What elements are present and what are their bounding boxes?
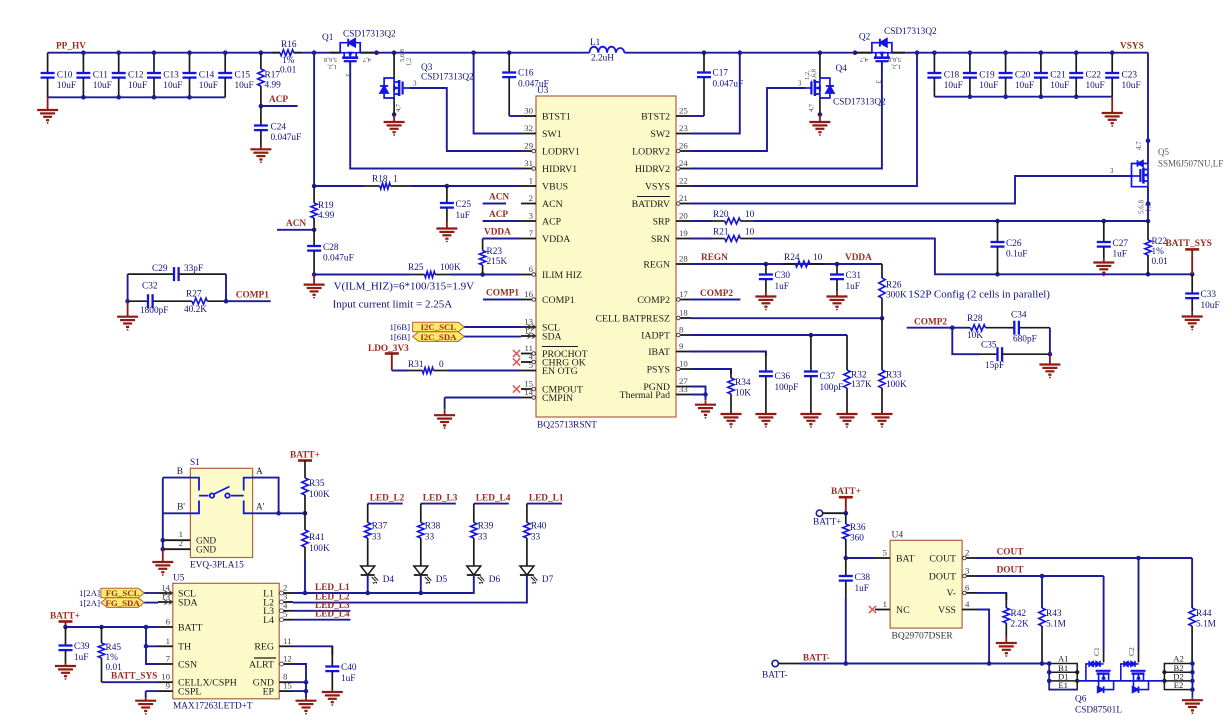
svg-text:COMP1: COMP1	[236, 291, 269, 301]
resistor R34	[728, 369, 751, 414]
svg-text:15pF: 15pF	[985, 361, 1004, 371]
pin 13 SCL U3	[521, 317, 560, 334]
svg-text:300K: 300K	[886, 291, 907, 301]
wire LED_L2 net	[293, 585, 527, 603]
power flag BATT+ right	[831, 487, 861, 513]
svg-text:1[2A]: 1[2A]	[79, 588, 100, 598]
svg-text:10uF: 10uF	[979, 81, 998, 91]
svg-text:E1: E1	[1058, 680, 1068, 690]
svg-text:R20: R20	[713, 210, 729, 220]
svg-text:10K: 10K	[967, 331, 983, 341]
junction dot Ap-1	[276, 511, 281, 516]
svg-text:B': B'	[177, 503, 185, 513]
svg-text:3: 3	[1110, 167, 1114, 175]
svg-text:1[6B]: 1[6B]	[389, 322, 410, 332]
ground S1	[162, 549, 164, 562]
junction dot TH	[144, 644, 149, 649]
svg-text:1,2,: 1,2,	[891, 63, 901, 70]
svg-text:15: 15	[283, 681, 292, 691]
wire BTST2	[691, 115, 704, 117]
svg-text:SSM6J507NU,LF: SSM6J507NU,LF	[1158, 159, 1223, 169]
wire COMP1 out	[226, 300, 271, 302]
junction dot ACP	[259, 104, 264, 109]
svg-text:U4: U4	[892, 531, 904, 541]
capacitor C14	[183, 53, 218, 98]
resistor R35	[302, 461, 330, 514]
svg-text:E2: E2	[1174, 680, 1184, 690]
svg-text:1800pF: 1800pF	[140, 306, 168, 316]
svg-text:R24: R24	[784, 253, 800, 263]
pin 3 DOUT U4	[929, 566, 977, 583]
resistor R42	[1003, 593, 1029, 636]
wire S1 pin A	[253, 467, 279, 513]
svg-text:0: 0	[439, 360, 444, 370]
ground CMPIN	[444, 409, 446, 415]
wire Q1 gate to HIDRV1	[350, 62, 521, 169]
svg-text:C19: C19	[979, 71, 995, 81]
power flag LDO_3V3	[368, 344, 409, 371]
svg-text:BATT: BATT	[178, 622, 203, 633]
pin 3 ACP U3	[521, 211, 562, 228]
svg-text:10: 10	[813, 253, 823, 263]
junction dot C16 top	[507, 50, 512, 55]
LED D7	[520, 566, 554, 585]
ground U5 GND	[305, 697, 307, 701]
wire BATT net	[66, 626, 159, 628]
resistor R33	[879, 318, 907, 414]
resistor R37	[365, 522, 388, 567]
capacitor C17	[697, 53, 743, 116]
wire C1 gate lead	[1103, 576, 1105, 650]
pin 1 GND S1	[163, 529, 217, 547]
wire LED_L1 net	[293, 585, 474, 594]
svg-text:5: 5	[529, 360, 534, 370]
pin 2 GND S1	[163, 538, 217, 556]
svg-text:5,6,8: 5,6,8	[888, 56, 901, 63]
pin 10 PSYS U3	[647, 359, 691, 376]
ground Q3 source	[393, 115, 395, 123]
pin 16 COMP1 U3	[521, 289, 575, 306]
svg-text:1uF: 1uF	[855, 584, 869, 594]
wire SCL	[464, 326, 521, 328]
svg-text:C11: C11	[93, 71, 109, 81]
junction dot Q2 source	[853, 50, 858, 55]
capacitor C28	[307, 230, 354, 275]
svg-text:R38: R38	[425, 522, 441, 532]
wire DOUT	[977, 575, 1104, 577]
junction dot COMP2 gnd	[1048, 352, 1053, 357]
wire COMP1 right vertical	[225, 274, 227, 301]
junction dot VBUS branch	[312, 50, 317, 55]
svg-text:R19: R19	[318, 201, 334, 211]
junction dot COMP1 net	[224, 299, 229, 304]
resistor R44	[1189, 558, 1216, 664]
junction dot GND-EP	[304, 680, 309, 685]
svg-text:R31: R31	[408, 360, 424, 370]
svg-text:VSYS: VSYS	[1120, 42, 1144, 52]
wire VSYS pin to rail	[691, 53, 917, 186]
svg-text:100pF: 100pF	[775, 383, 799, 393]
svg-text:R32: R32	[851, 371, 867, 381]
junction dot IADPT-C37	[809, 333, 814, 338]
svg-text:R28: R28	[967, 314, 983, 324]
wire IADPT	[691, 334, 847, 336]
svg-text:R33: R33	[886, 371, 902, 381]
wire D4 cathode	[367, 575, 369, 593]
svg-text:0.1uF: 0.1uF	[1006, 250, 1027, 260]
ground R34	[721, 413, 742, 415]
junction dot COMP2 net	[950, 325, 955, 330]
svg-text:1uF: 1uF	[846, 282, 860, 292]
capacitor C32	[128, 282, 172, 317]
flag FG_SCL	[79, 588, 144, 598]
svg-text:FG_SDA: FG_SDA	[105, 598, 140, 608]
junction dot LED_L1 D5	[419, 591, 424, 596]
resistor R31	[392, 360, 521, 374]
svg-text:C2: C2	[1127, 647, 1136, 656]
wire CSPL to ground	[146, 690, 158, 692]
svg-text:PP_HV: PP_HV	[56, 42, 86, 52]
pin 5 EN OTG U3	[521, 360, 578, 377]
junction dot VSYS branch	[915, 50, 920, 55]
capacitor C31	[830, 264, 861, 292]
svg-text:C1: C1	[1092, 647, 1101, 656]
svg-text:C28: C28	[323, 243, 339, 253]
svg-text:0.047uF: 0.047uF	[713, 80, 744, 90]
svg-text:10uF: 10uF	[199, 81, 218, 91]
transistor Q4	[798, 53, 886, 117]
svg-text:LED_L1: LED_L1	[529, 494, 564, 504]
junction dot C39	[63, 625, 68, 630]
wire switch-node rail L1 to Q2	[624, 52, 872, 54]
svg-text:C31: C31	[846, 271, 862, 281]
svg-text:R21: R21	[713, 228, 729, 238]
pin 23 SW2 U3	[650, 123, 691, 140]
svg-text:2: 2	[965, 548, 969, 558]
svg-text:DOUT: DOUT	[929, 571, 956, 582]
terminal BATT- circle	[762, 660, 787, 680]
svg-text:COMP1: COMP1	[542, 295, 575, 306]
svg-text:9: 9	[166, 681, 171, 691]
capacitor C24	[254, 106, 301, 146]
resistor R21 and SRN wire	[691, 228, 1192, 275]
svg-text:10uF: 10uF	[1201, 301, 1220, 311]
svg-text:2: 2	[529, 193, 533, 203]
svg-text:A: A	[256, 467, 263, 477]
resistor R26	[879, 264, 907, 318]
switch S1 body	[190, 458, 253, 571]
pin 21 BATDRV U3	[632, 193, 691, 210]
svg-text:D4: D4	[383, 575, 395, 585]
resistor R19	[311, 186, 335, 230]
pin 22 VSYS U3	[645, 176, 691, 193]
svg-text:CSD87501L: CSD87501L	[1075, 706, 1122, 716]
wire SW2	[691, 53, 740, 134]
ground C25	[446, 221, 448, 229]
ground C31	[836, 291, 838, 297]
svg-text:LED_L4: LED_L4	[476, 494, 511, 504]
wire COMP2 in	[907, 327, 966, 329]
svg-text:6: 6	[965, 582, 970, 592]
capacitor C38	[839, 558, 871, 664]
junction dot SW2 branch	[738, 50, 743, 55]
svg-text:R23: R23	[487, 247, 503, 257]
wire V- to R42	[977, 593, 1006, 600]
svg-text:100K: 100K	[309, 544, 330, 554]
junction dot TH branch	[144, 625, 149, 630]
svg-text:PSYS: PSYS	[647, 364, 670, 375]
svg-text:21: 21	[679, 193, 688, 203]
wire COMP1 left vertical	[127, 274, 129, 301]
svg-text:C37: C37	[820, 372, 836, 382]
svg-text:R45: R45	[106, 643, 122, 653]
svg-text:U5: U5	[173, 574, 185, 584]
svg-text:BAT: BAT	[896, 553, 915, 564]
svg-text:EN OTG: EN OTG	[542, 366, 578, 377]
svg-text:C29: C29	[152, 264, 168, 274]
junction dot COUT C2	[1136, 556, 1141, 561]
svg-text:Q3: Q3	[421, 63, 433, 73]
capacitor C11	[76, 53, 111, 98]
svg-text:ACN: ACN	[489, 193, 509, 203]
junction dots Q6 right stack	[1190, 661, 1195, 666]
svg-text:R40: R40	[531, 522, 547, 532]
svg-text:Q1: Q1	[322, 33, 334, 43]
wire VDDA stub	[483, 238, 521, 240]
junction dot VBUS-R19	[312, 184, 317, 189]
svg-text:R34: R34	[735, 378, 751, 388]
flag FG_SDA	[79, 598, 144, 608]
resistor R28	[966, 314, 1008, 341]
wire REG to C40	[293, 646, 332, 655]
inductor L1	[590, 38, 625, 64]
svg-text:C20: C20	[1015, 71, 1031, 81]
svg-text:C24: C24	[271, 123, 287, 133]
terminal BATT+ circle	[813, 510, 846, 528]
svg-text:R44: R44	[1196, 609, 1212, 619]
pin 4 L3 U5	[263, 600, 293, 617]
wire FG_SDA	[144, 602, 158, 604]
svg-text:LODRV2: LODRV2	[632, 146, 670, 157]
junction dot BATT- C38	[844, 661, 849, 666]
wire VSYS down to Q5	[1147, 53, 1149, 164]
wire ACN stub	[483, 203, 506, 205]
wire ACN left	[277, 229, 314, 231]
junction dot SRN-R22	[1146, 272, 1151, 277]
svg-text:SDA: SDA	[542, 331, 562, 342]
svg-text:1uF: 1uF	[456, 211, 470, 221]
svg-text:33pF: 33pF	[184, 264, 203, 274]
ground C37	[800, 413, 821, 415]
pin 4 CHRG OK U3	[521, 352, 586, 369]
svg-text:28: 28	[679, 254, 688, 264]
junction dot C32 gnd	[125, 299, 130, 304]
power flag BATT_SYS	[1166, 239, 1212, 274]
svg-text:BATT-: BATT-	[803, 654, 830, 664]
resistor R40	[524, 522, 547, 567]
svg-text:1S2P Config (2 cells in parall: 1S2P Config (2 cells in parallel)	[908, 289, 1050, 301]
svg-text:5,6,8: 5,6,8	[324, 56, 337, 63]
svg-text:Q6: Q6	[1075, 695, 1087, 705]
pin 12 SDA U3	[521, 326, 562, 343]
pin 1 NC U4	[875, 599, 910, 616]
wire SW1	[474, 53, 521, 134]
svg-text:2: 2	[179, 538, 183, 548]
svg-text:3: 3	[413, 80, 417, 88]
svg-text:7: 7	[529, 228, 534, 238]
wire Q2 gate to HIDRV2	[691, 62, 882, 169]
resistor R41	[302, 513, 330, 593]
wire SDA	[464, 336, 521, 338]
wire C2 gate lead	[1138, 558, 1140, 650]
capacitor C37	[804, 335, 843, 414]
svg-text:NC: NC	[896, 605, 910, 616]
junction dot LED_L1 D4	[365, 591, 370, 596]
wire PSYS	[691, 369, 731, 374]
svg-text:C30: C30	[775, 271, 791, 281]
svg-text:4,7: 4,7	[1135, 141, 1143, 150]
junction dot BATT- R43	[1040, 661, 1045, 666]
svg-text:4,7: 4,7	[808, 103, 815, 112]
svg-text:11: 11	[283, 636, 291, 646]
wire S1 pin Bp	[163, 503, 191, 514]
pin 33 Thermal Pad U3	[620, 384, 691, 401]
pin 5 BAT U4	[875, 548, 915, 565]
wire TH branch	[146, 645, 158, 647]
svg-text:BATT+: BATT+	[831, 487, 861, 497]
svg-text:U3: U3	[537, 86, 549, 96]
junction dot R41 bottom	[303, 591, 308, 596]
svg-text:18: 18	[679, 308, 688, 318]
pin 14 SCL U5	[158, 583, 196, 600]
svg-text:BTST2: BTST2	[641, 111, 670, 122]
svg-text:10uF: 10uF	[93, 81, 112, 91]
svg-text:33: 33	[372, 533, 382, 543]
pin 1 TH U5	[158, 636, 191, 653]
svg-text:10uF: 10uF	[1122, 81, 1141, 91]
svg-text:D7: D7	[542, 575, 554, 585]
svg-text:4,7: 4,7	[395, 103, 402, 112]
svg-text:0.047uF: 0.047uF	[271, 133, 302, 143]
ground VSYS bank	[1111, 97, 1113, 113]
pin 26 LODRV2 U3	[632, 141, 691, 158]
pin 15 EP U5	[263, 681, 293, 698]
svg-text:10: 10	[745, 228, 755, 238]
pin 1 VBUS U3	[521, 176, 568, 193]
svg-text:680pF: 680pF	[1013, 335, 1037, 345]
svg-text:5,6,8: 5,6,8	[811, 69, 818, 82]
wire input cap bank bottom rail	[48, 96, 226, 98]
junction dot SRN-BATT_SYS	[1190, 272, 1195, 277]
svg-text:R36: R36	[850, 523, 866, 533]
capacitor C10	[41, 53, 76, 98]
svg-text:LED_L2: LED_L2	[370, 494, 405, 504]
svg-text:25: 25	[679, 106, 688, 116]
wire VSYS rail Q2 to VSYS label	[891, 52, 1148, 54]
svg-text:0.01: 0.01	[1152, 257, 1169, 267]
ground C40	[331, 690, 333, 692]
capacitor C20	[999, 53, 1034, 97]
svg-text:C33: C33	[1201, 290, 1217, 300]
svg-text:6: 6	[166, 617, 171, 627]
svg-text:10uF: 10uF	[1015, 81, 1034, 91]
junction dot BAT pin	[844, 556, 849, 561]
junction dot SRP-C26	[995, 219, 1000, 224]
LED D5	[414, 566, 448, 585]
transistor Q1	[322, 30, 396, 78]
wire LED_L4 top stub	[474, 494, 511, 523]
svg-text:24: 24	[679, 158, 688, 168]
wire Q6 right stack bus	[1191, 664, 1193, 698]
svg-text:LED_L4: LED_L4	[315, 610, 350, 620]
svg-text:C27: C27	[1113, 239, 1129, 249]
svg-text:IADPT: IADPT	[641, 330, 670, 341]
LED D4	[361, 566, 395, 585]
svg-text:31: 31	[524, 158, 533, 168]
wire R45 to CSPH	[102, 681, 159, 683]
svg-text:C26: C26	[1006, 239, 1022, 249]
svg-text:100pF: 100pF	[820, 383, 844, 393]
svg-text:1: 1	[393, 175, 398, 185]
wire TH CSN vertical	[146, 627, 158, 664]
svg-text:1%: 1%	[1152, 247, 1165, 257]
svg-text:360: 360	[850, 534, 864, 544]
svg-text:BATT-: BATT-	[762, 671, 787, 681]
pin 28 REGN U3	[643, 254, 691, 271]
ground C30	[765, 291, 767, 297]
no-connect X pin 15	[513, 385, 520, 392]
junction dot DOUT R43	[1040, 574, 1045, 579]
transistor Q6 FET2	[1121, 647, 1149, 693]
capacitor C40	[325, 646, 357, 690]
resistor R36	[843, 513, 866, 558]
svg-text:D5: D5	[436, 575, 448, 585]
pin 15 CMPOUT U3	[521, 379, 583, 396]
capacitor C33	[1185, 274, 1219, 311]
svg-text:Input current limit = 2.25A: Input current limit = 2.25A	[333, 299, 453, 311]
svg-text:1[6B]: 1[6B]	[389, 332, 410, 342]
junction dot Q5 drain	[1146, 138, 1151, 143]
ground COMP2 network	[1049, 355, 1051, 365]
pin 8 GND U5	[253, 672, 293, 689]
svg-text:COMP2: COMP2	[914, 318, 947, 328]
wire FG_SCL	[144, 592, 158, 594]
svg-text:1%: 1%	[282, 56, 295, 66]
wire IBAT	[691, 352, 766, 357]
junction dot pin18-R33	[880, 316, 885, 321]
wire ALRT GND EP join	[293, 664, 306, 691]
svg-text:C14: C14	[199, 71, 215, 81]
capacitor C16	[502, 53, 549, 116]
junction dot SRP-R22	[1146, 219, 1151, 224]
svg-text:5.1M: 5.1M	[1046, 620, 1066, 630]
pin 6 BATT U5	[158, 617, 203, 634]
capacitor C12	[112, 53, 147, 98]
svg-text:SRN: SRN	[651, 234, 670, 245]
wire LED_L3 top stub	[421, 494, 458, 523]
junction dot Q4 drain	[818, 50, 823, 55]
svg-text:10uF: 10uF	[163, 81, 182, 91]
wire REGN	[691, 263, 882, 265]
svg-text:3: 3	[798, 80, 802, 88]
svg-text:VSYS: VSYS	[645, 181, 670, 192]
svg-text:C32: C32	[142, 282, 158, 292]
junction dots VSYS bank bottom	[968, 94, 973, 99]
wire COMP2 lower branch	[952, 328, 980, 355]
svg-text:2.2uH: 2.2uH	[591, 54, 614, 64]
junction dot Q1 drain end	[374, 50, 379, 55]
svg-text:MAX17263LETD+T: MAX17263LETD+T	[173, 702, 253, 712]
